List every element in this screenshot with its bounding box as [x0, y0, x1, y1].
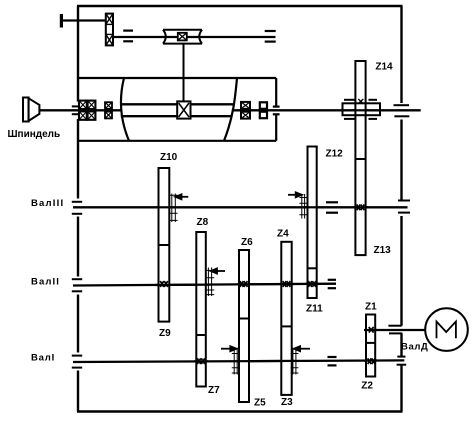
svg-text:Z1: Z1: [365, 302, 377, 313]
svg-text:Z11: Z11: [306, 304, 323, 315]
svg-text:Z5: Z5: [254, 398, 266, 409]
svg-text:Z6: Z6: [241, 237, 253, 248]
svg-text:Шпиндель: Шпиндель: [8, 129, 61, 140]
svg-text:ВалIII: ВалIII: [31, 198, 64, 209]
svg-text:Z3: Z3: [281, 397, 293, 408]
svg-text:Z10: Z10: [160, 152, 178, 163]
svg-text:ВалI: ВалI: [31, 353, 55, 364]
svg-text:Z4: Z4: [277, 229, 289, 240]
svg-text:ВалД: ВалД: [401, 342, 428, 353]
svg-text:Z12: Z12: [326, 149, 344, 160]
svg-text:Z2: Z2: [361, 381, 373, 392]
svg-text:Z9: Z9: [159, 328, 171, 339]
svg-text:Z8: Z8: [197, 217, 209, 228]
svg-text:Z13: Z13: [374, 245, 392, 256]
svg-text:Z14: Z14: [375, 62, 393, 73]
svg-text:ВалII: ВалII: [31, 276, 60, 287]
svg-text:Z7: Z7: [208, 385, 220, 396]
